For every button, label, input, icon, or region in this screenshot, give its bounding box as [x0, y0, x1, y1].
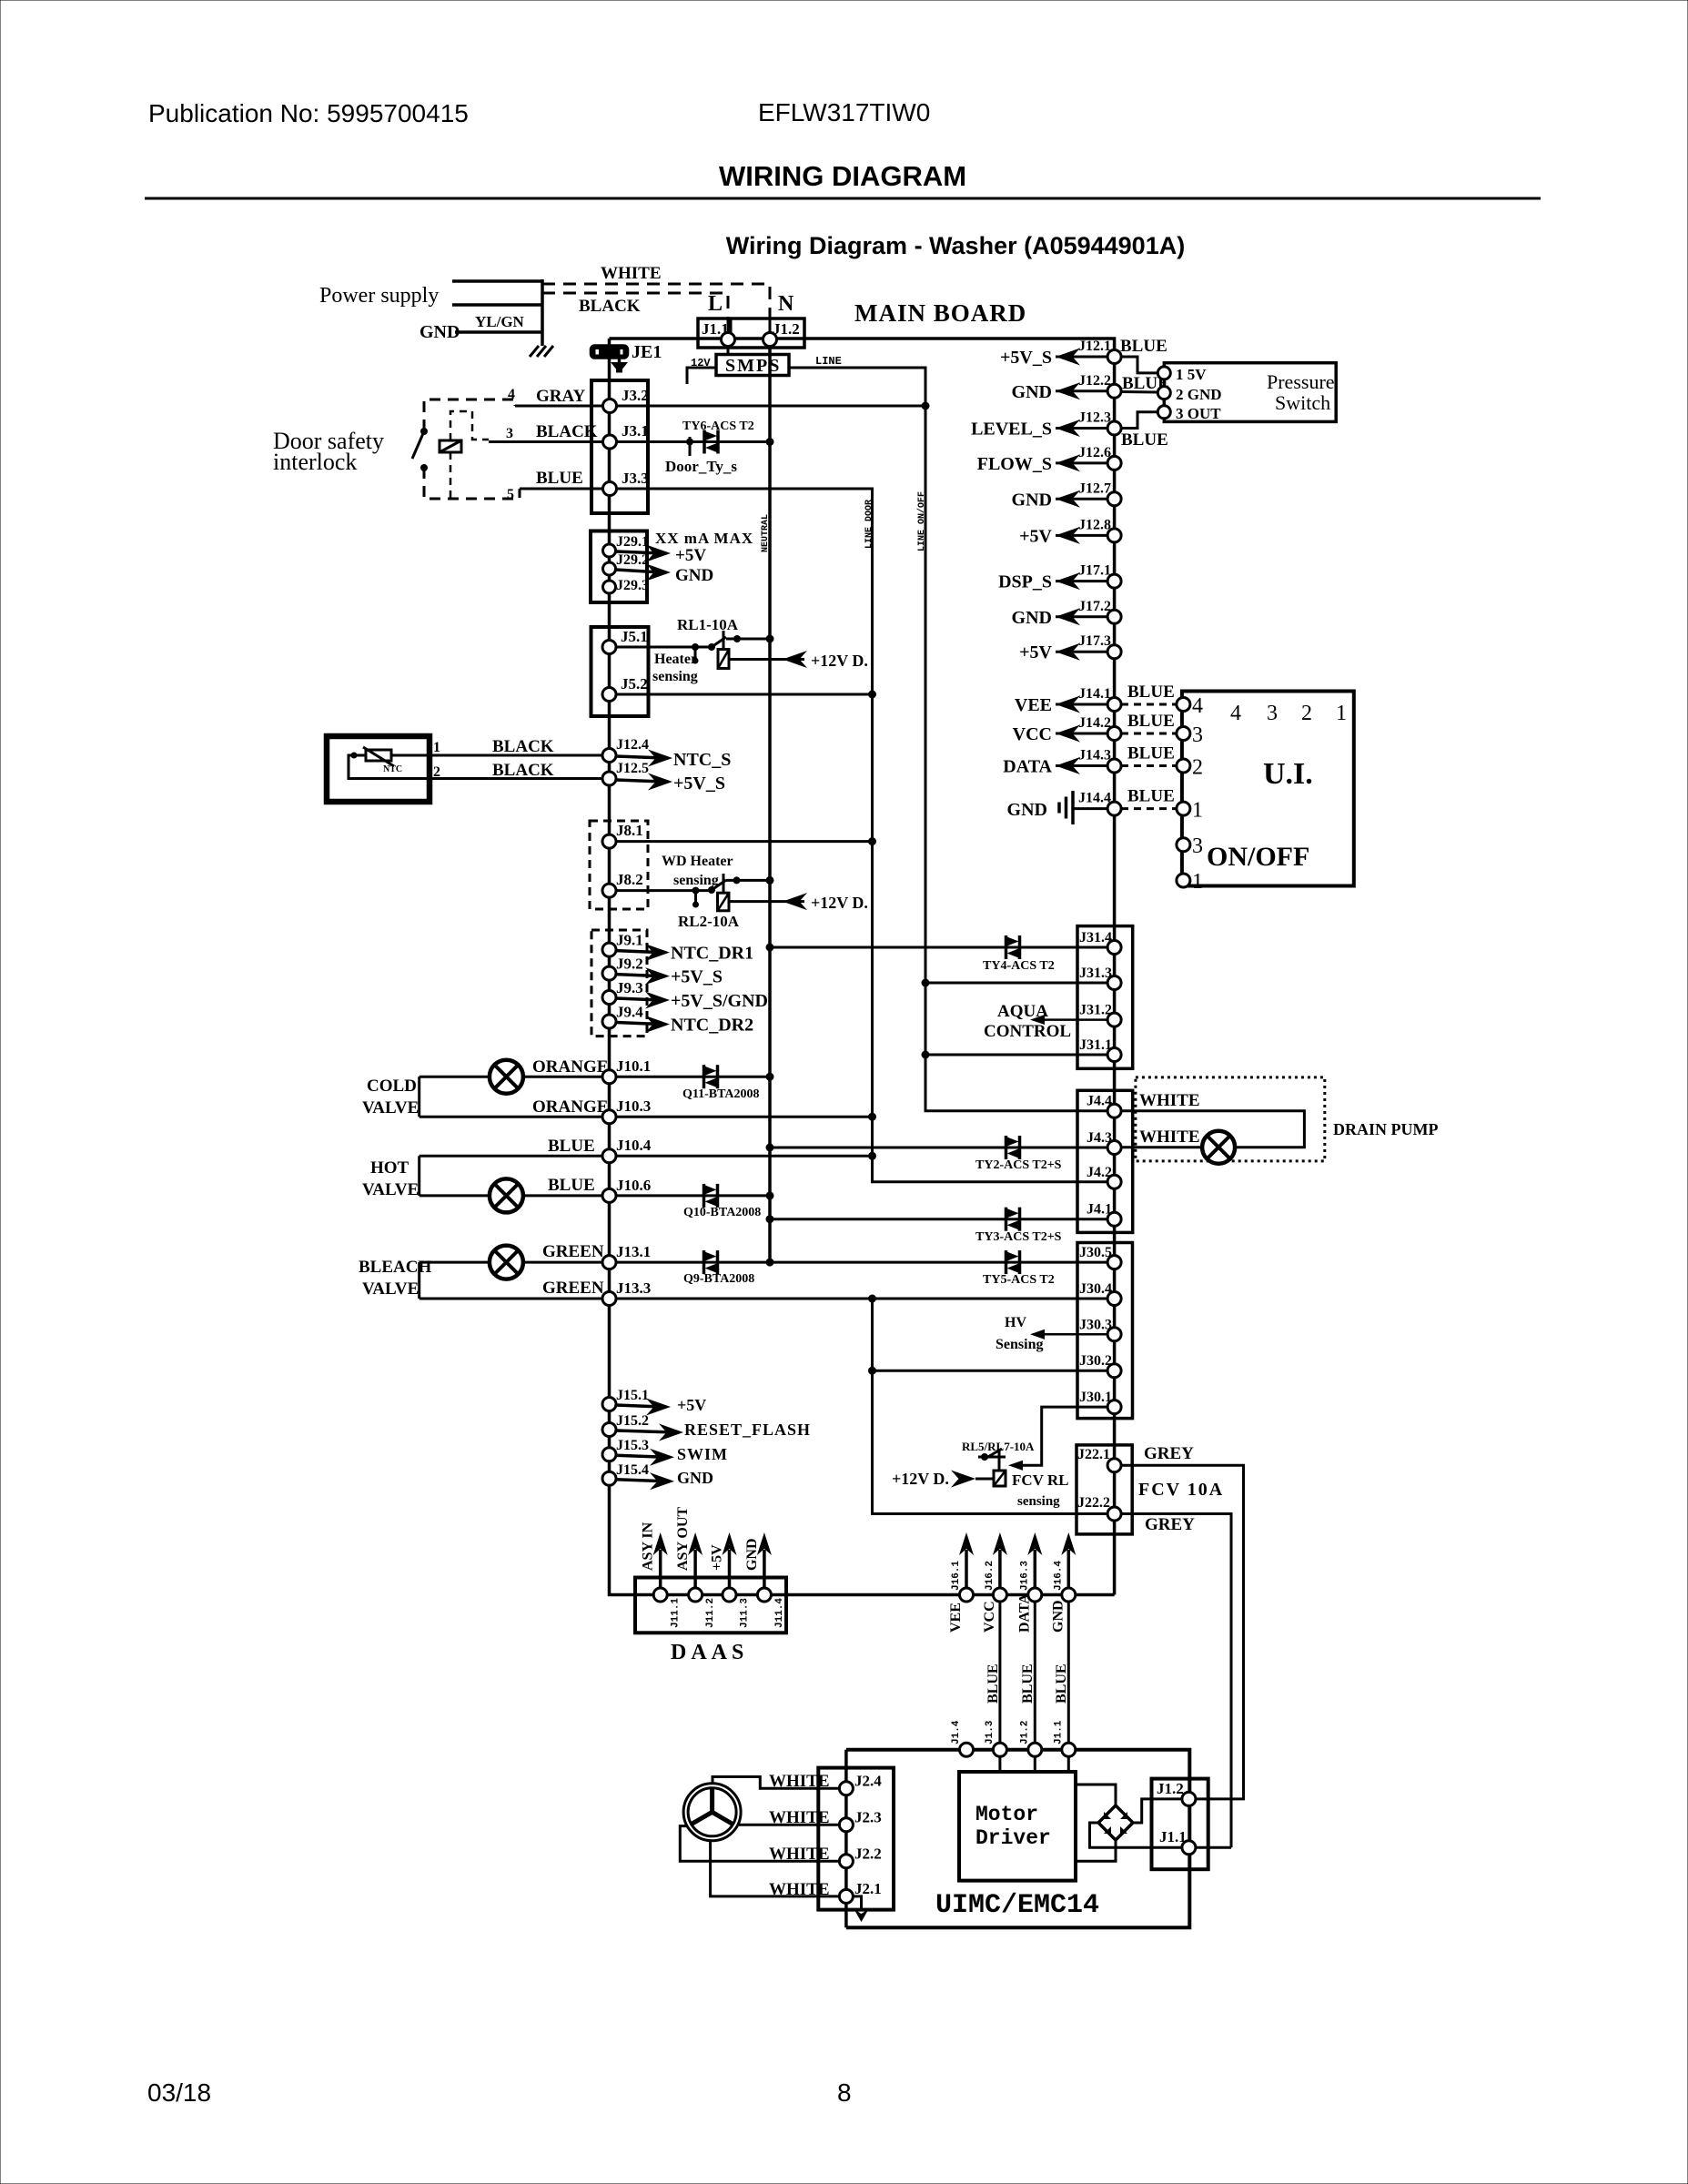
pin J14.1 [1107, 698, 1121, 712]
svg-text:sensing: sensing [1017, 1494, 1060, 1509]
wire L into J1.1 [727, 318, 730, 333]
wire J12.3 to PS3 [1121, 412, 1157, 429]
svg-text:J15.3: J15.3 [616, 1438, 649, 1453]
bridge rectifier [1098, 1805, 1133, 1840]
pin PS2 [1157, 387, 1170, 399]
svg-text:J17.3: J17.3 [1078, 633, 1111, 649]
pin J4.1 [1107, 1212, 1121, 1226]
NTC sensor box [327, 736, 430, 802]
pin J17.2 [1107, 610, 1121, 623]
pin UI 1 [1177, 802, 1190, 815]
svg-text:DSP_S: DSP_S [998, 572, 1052, 592]
wire power drop [541, 279, 544, 346]
svg-text:J22.1: J22.1 [1077, 1447, 1110, 1462]
wire J2.3 motor right [738, 1824, 839, 1826]
triac Q9 [704, 1250, 718, 1274]
wire J4.1/TY3 [770, 1218, 1107, 1220]
svg-text:J14.4: J14.4 [1078, 791, 1111, 806]
svg-text:XX mA MAX: XX mA MAX [655, 530, 753, 547]
pin J8.1 [602, 834, 616, 848]
wire J1.1 stub [1067, 1756, 1070, 1772]
wire BLUE J16.3-J1.2 [1034, 1602, 1036, 1750]
connector J2 box [818, 1768, 894, 1910]
svg-text:J30.2: J30.2 [1079, 1353, 1112, 1369]
junction J30.2 tap [868, 1367, 876, 1375]
svg-text:LINE DOOR: LINE DOOR [864, 500, 874, 549]
svg-text:MAIN BOARD: MAIN BOARD [854, 299, 1026, 327]
svg-text:ORANGE: ORANGE [532, 1057, 608, 1077]
bleach valve left leg [418, 1262, 420, 1299]
svg-text:J12.2: J12.2 [1078, 373, 1111, 389]
NTC lead loop [349, 753, 430, 779]
pin J1.4 [960, 1743, 974, 1756]
arrow +5V_S [1056, 349, 1080, 366]
TY6 gate stub [686, 437, 693, 456]
svg-text:J12.8: J12.8 [1078, 517, 1111, 532]
pin PS3 [1157, 406, 1170, 419]
svg-text:GND: GND [1012, 608, 1052, 628]
svg-text:BLUE: BLUE [1127, 682, 1175, 702]
svg-text:BLUE: BLUE [1127, 712, 1175, 731]
pin J11.4 [757, 1588, 771, 1602]
pin J9.2 [602, 966, 616, 980]
svg-text:NTC_DR1: NTC_DR1 [671, 944, 753, 964]
svg-text:J31.2: J31.2 [1079, 1003, 1112, 1018]
wire J8.1 [616, 840, 873, 843]
arrow +12V RL1 [783, 651, 807, 668]
svg-text:Wiring Diagram - Washer (A0594: Wiring Diagram - Washer (A05944901A) [726, 232, 1185, 259]
svg-text:J15.4: J15.4 [616, 1462, 649, 1478]
svg-text:ASY IN: ASY IN [641, 1522, 656, 1571]
junction J8.1/LINEDOOR [868, 837, 876, 845]
interlock switch contact top [420, 428, 428, 435]
wire BLUE dashed J14-UI 2 [1121, 764, 1177, 767]
wire BLUE J16.4-J1.1 [1067, 1602, 1070, 1750]
svg-text:+5V: +5V [1019, 526, 1052, 546]
svg-text:YL/GN: YL/GN [475, 313, 525, 330]
svg-text:J16.3: J16.3 [1019, 1561, 1030, 1591]
svg-text:J16.4: J16.4 [1053, 1561, 1064, 1591]
svg-text:Power supply: Power supply [319, 284, 439, 308]
wire BLUE dashed J14-UI 1 [1121, 807, 1177, 810]
wire J31.1 [925, 1054, 1107, 1057]
svg-text:J11.4: J11.4 [774, 1598, 785, 1628]
pin J10.6 [602, 1188, 616, 1202]
pin J12.5 [602, 772, 616, 785]
junction TY3/NEUTRAL [766, 1215, 774, 1223]
svg-text:J12.3: J12.3 [1078, 410, 1111, 426]
pin J30.1 [1107, 1400, 1121, 1414]
junction J13.1/NEUTRAL [766, 1259, 774, 1267]
pin J16.3 [1028, 1588, 1042, 1602]
wire RL2 +12V [729, 900, 804, 903]
pin J22.1 [1107, 1459, 1121, 1472]
svg-text:J13.3: J13.3 [616, 1279, 651, 1297]
svg-text:BLACK: BLACK [579, 297, 641, 316]
wire J13.3 drop to J22.2 [873, 1299, 1108, 1514]
svg-text:CONTROL: CONTROL [984, 1022, 1071, 1041]
junction J5.2/LINEDOOR [868, 691, 876, 699]
svg-text:J1.4: J1.4 [951, 1720, 962, 1744]
pin J11.2 [689, 1588, 702, 1602]
Motor Driver box [959, 1772, 1076, 1881]
pin J4.2 [1107, 1175, 1121, 1188]
triac TY5 [1006, 1250, 1020, 1274]
connector J31 box [1077, 926, 1133, 1069]
svg-text:Driver: Driver [975, 1826, 1051, 1850]
wire bridge left / J1.1 line [1090, 1823, 1232, 1847]
wire J5.1 to RL1 [616, 646, 712, 649]
svg-text:GND: GND [419, 322, 460, 342]
interlock switch contact bottom [420, 464, 428, 471]
svg-text:Switch: Switch [1275, 391, 1330, 414]
wire J10.4 [419, 1155, 873, 1158]
NTC lead 1 [391, 754, 430, 757]
pin J14.2 [1107, 727, 1121, 741]
svg-text:J1.2: J1.2 [1157, 1780, 1184, 1797]
pin J13.3 [602, 1292, 616, 1306]
svg-text:J12.7: J12.7 [1078, 480, 1111, 496]
pin J8.2 [602, 884, 616, 897]
svg-text:J12.1: J12.1 [1078, 339, 1111, 354]
wire N into J1.2 [769, 318, 772, 333]
svg-text:SMPS: SMPS [725, 356, 781, 376]
junction J10.3/LINEDOOR [868, 1113, 876, 1121]
wire J10.6 [419, 1194, 770, 1197]
pin J1.3 [993, 1743, 1006, 1756]
svg-text:J14.3: J14.3 [1078, 748, 1111, 763]
wire J12.2 to PS2 [1121, 390, 1157, 394]
svg-text:WHITE: WHITE [1139, 1091, 1200, 1110]
wire +12V to RL5 [975, 1478, 994, 1481]
svg-text:GREEN: GREEN [542, 1242, 604, 1261]
svg-text:LEVEL_S: LEVEL_S [971, 420, 1052, 440]
pump symbol [1202, 1131, 1235, 1164]
svg-text:+5V_S: +5V_S [673, 773, 725, 794]
pin J14.4 [1107, 802, 1121, 815]
svg-text:J17.2: J17.2 [1078, 599, 1111, 614]
svg-text:J13.1: J13.1 [616, 1243, 651, 1260]
arrow GND [1056, 608, 1080, 625]
svg-text:U.I.: U.I. [1263, 757, 1313, 791]
wire J13.1/J30.5 [419, 1261, 1107, 1264]
arrow NTC_S [616, 750, 672, 767]
J16.1 arrow up [959, 1532, 974, 1588]
svg-text:+5V: +5V [1019, 642, 1052, 662]
svg-text:GND: GND [1012, 382, 1052, 402]
svg-text:BLUE: BLUE [536, 469, 583, 488]
svg-text:J8.2: J8.2 [616, 871, 643, 888]
wire main board top [610, 339, 1115, 357]
arrow GND [1056, 382, 1080, 399]
svg-text:J3.2: J3.2 [622, 387, 649, 404]
wire GND yl/gn [455, 330, 542, 334]
arrow RESET_FLASH [616, 1424, 683, 1441]
arrow GND [1056, 490, 1080, 508]
RL2 sense tap [692, 887, 700, 908]
pin J12.6 [1107, 456, 1121, 470]
svg-text:Pressure: Pressure [1267, 370, 1335, 393]
pin J30.4 [1107, 1292, 1121, 1306]
valve hot [490, 1178, 523, 1212]
svg-text:GRAY: GRAY [536, 387, 585, 406]
svg-text:TY2-ACS T2+S: TY2-ACS T2+S [975, 1158, 1062, 1172]
main board right rail [1113, 357, 1117, 1595]
pin J15.3 [602, 1448, 616, 1461]
svg-text:FLOW_S: FLOW_S [977, 454, 1052, 474]
svg-text:+5V: +5V [677, 1396, 706, 1414]
connector J5 box [591, 627, 649, 716]
pin J12.1 [1107, 350, 1121, 364]
connector J22 box [1076, 1445, 1132, 1534]
svg-text:WIRING DIAGRAM: WIRING DIAGRAM [719, 160, 966, 192]
NTC thermistor [363, 747, 394, 766]
pin J15.1 [602, 1398, 616, 1411]
svg-text:J16.2: J16.2 [985, 1561, 996, 1591]
wire BLACK ntc2 [430, 777, 610, 780]
JE1 arrow [611, 357, 628, 373]
svg-text:BLUE: BLUE [1127, 787, 1175, 806]
wire GRAY J3.2 [515, 405, 925, 408]
pin J10.3 [602, 1110, 616, 1124]
pin J5.1 [602, 641, 616, 654]
arrow AQUA CONTROL [1030, 1015, 1107, 1025]
arrow FCV RL sense [1008, 1461, 1023, 1471]
RL1 sense tap [692, 643, 699, 664]
svg-text:DATA: DATA [1016, 1593, 1032, 1633]
svg-text:GND: GND [1007, 800, 1047, 820]
svg-text:BLUE: BLUE [548, 1176, 595, 1195]
wire J30.2 [873, 1370, 1108, 1372]
interlock coil dashed lower [450, 452, 452, 499]
svg-text:3: 3 [1267, 702, 1278, 725]
J2.1 stub arrow [854, 1909, 869, 1922]
pin J29.3 [603, 581, 616, 593]
svg-text:GND: GND [744, 1538, 760, 1571]
junction J3.1/NEUTRAL [766, 438, 774, 446]
svg-text:3: 3 [1192, 834, 1203, 858]
wire J14.4 gnd [1073, 807, 1107, 810]
svg-text:N: N [778, 292, 794, 316]
wire J17.2 arrow tail [1056, 615, 1107, 618]
junction LINE/J31.3 [922, 979, 930, 987]
svg-text:BLACK: BLACK [492, 737, 554, 756]
pin J31.3 [1107, 976, 1121, 990]
wire J31.4/TY4 [770, 946, 1107, 949]
connector J29 box [591, 531, 647, 603]
arrow +5V_S/GND [616, 992, 670, 1009]
wire J2.2 motor left [680, 1826, 839, 1862]
pin J1.2 (motor) [1182, 1792, 1196, 1805]
svg-text:1: 1 [1192, 799, 1203, 823]
pin J12.3 [1107, 421, 1121, 435]
svg-text:3 OUT: 3 OUT [1176, 405, 1221, 422]
svg-text:WD Heater: WD Heater [662, 854, 733, 869]
svg-text:J31.3: J31.3 [1079, 966, 1112, 981]
wire motor row [846, 1750, 1189, 1927]
motor (3-phase) [683, 1784, 741, 1841]
svg-text:BLACK: BLACK [492, 761, 554, 780]
pin J1.1 [1062, 1743, 1076, 1756]
svg-text:HV: HV [1005, 1315, 1026, 1330]
pin J2.3 [839, 1818, 853, 1832]
svg-text:GREY: GREY [1144, 1444, 1194, 1463]
J2.1 drain stub [853, 1896, 862, 1909]
svg-text:Motor: Motor [975, 1803, 1038, 1826]
wire BLUE J3.3 [520, 489, 1107, 1182]
arrow +12V RL2 [783, 893, 807, 910]
svg-text:2: 2 [1301, 702, 1312, 725]
svg-text:J12.5: J12.5 [616, 761, 649, 776]
svg-text:ON/OFF: ON/OFF [1207, 842, 1309, 872]
svg-text:VCC: VCC [1013, 724, 1052, 744]
svg-text:Publication No: 5995700415: Publication No: 5995700415 [148, 99, 469, 127]
relay coil RL2 [718, 893, 730, 911]
wire J14.2 arrow tail [1056, 733, 1107, 735]
wire bridge right to J1.2 [1133, 1799, 1182, 1823]
svg-text:J15.1: J15.1 [616, 1388, 649, 1403]
svg-text:+12V D.: +12V D. [811, 894, 868, 912]
svg-text:FCV RL: FCV RL [1012, 1471, 1069, 1489]
pin J16.2 [993, 1588, 1006, 1602]
pin J9.3 [602, 991, 616, 1005]
svg-text:BLUE: BLUE [1121, 430, 1168, 450]
svg-text:BLEACH: BLEACH [359, 1258, 431, 1277]
arrow +5V [616, 1399, 671, 1416]
wire J1.1 to SMPS [727, 339, 730, 355]
pin J30.3 [1107, 1328, 1121, 1341]
pin UI 4 [1177, 698, 1190, 712]
RL2 fixed lead [726, 876, 774, 885]
svg-text:J30.1: J30.1 [1079, 1390, 1112, 1405]
svg-text:J30.5: J30.5 [1079, 1245, 1112, 1260]
relay coil (door) [440, 440, 461, 452]
arrow DSP_S [1056, 572, 1080, 590]
svg-text:interlock: interlock [273, 449, 357, 475]
pin J17.3 [1107, 645, 1121, 659]
svg-text:GND: GND [675, 566, 713, 585]
wire J14.1 arrow tail [1056, 703, 1107, 706]
svg-text:Heater: Heater [654, 652, 697, 667]
pin J3.3 [603, 482, 617, 496]
pin J15.2 [602, 1423, 616, 1437]
wire bridge top [1076, 1785, 1116, 1805]
triac TY6 [704, 430, 718, 454]
pin J9.1 [602, 943, 616, 956]
triac TY2 [1006, 1136, 1020, 1159]
wire BLACK dashed [542, 293, 728, 318]
wire BLUE dashed J14-UI 4 [1121, 703, 1177, 706]
svg-text:J1.1: J1.1 [1159, 1828, 1187, 1845]
arrow +5V_S [616, 967, 670, 985]
svg-text:1: 1 [1336, 702, 1347, 725]
svg-text:VCC: VCC [982, 1601, 997, 1633]
relay coil RL5/RL7 [994, 1471, 1006, 1486]
pin UI onoff 1 [1177, 874, 1190, 887]
svg-text:JE1: JE1 [632, 342, 662, 362]
svg-text:J10.6: J10.6 [616, 1177, 651, 1194]
relay coil RL1 [718, 650, 729, 669]
svg-text:TY5-ACS T2: TY5-ACS T2 [983, 1273, 1055, 1287]
arrow +5V [1056, 527, 1080, 544]
pin J1.1 [722, 333, 735, 347]
svg-text:GND: GND [1012, 490, 1052, 510]
junction TY2/NEUTRAL [766, 1144, 774, 1152]
J16.3 arrow up [1027, 1532, 1042, 1588]
wire J17.3 arrow tail [1056, 651, 1107, 653]
arrow SWIM [616, 1449, 674, 1466]
svg-text:J11.1: J11.1 [671, 1598, 682, 1628]
wire J8.2 to RL2 [616, 889, 712, 892]
arrow HV sensing [1030, 1330, 1107, 1340]
pin J31.2 [1107, 1013, 1121, 1026]
ground (chassis) [530, 346, 553, 357]
triac TY3 [1006, 1208, 1020, 1231]
svg-text:+5V: +5V [675, 546, 706, 565]
pin J1.2 [763, 333, 777, 347]
wire J10.1 [419, 1076, 770, 1078]
svg-text:WHITE: WHITE [1139, 1127, 1200, 1147]
connector J4 box [1077, 1090, 1133, 1232]
svg-text:4: 4 [1230, 702, 1241, 725]
connector J3 box [591, 380, 648, 513]
pin J2.2 [839, 1855, 853, 1868]
svg-text:DRAIN PUMP: DRAIN PUMP [1333, 1120, 1438, 1138]
pin UI 3 [1177, 727, 1190, 741]
wire JE1 drop [608, 339, 612, 380]
svg-text:J30.3: J30.3 [1079, 1317, 1112, 1332]
svg-text:+5V_S: +5V_S [671, 967, 723, 987]
interlock switch blade [412, 431, 424, 459]
svg-text:4: 4 [508, 387, 515, 402]
wire J4.4 pump [1121, 1111, 1304, 1148]
svg-text:FCV 10A: FCV 10A [1138, 1480, 1224, 1500]
wire J5.2 [616, 693, 873, 696]
svg-text:J12.4: J12.4 [616, 737, 649, 753]
wire BLUE J16.2-J1.3 [998, 1602, 1001, 1750]
svg-text:TY3-ACS T2+S: TY3-ACS T2+S [975, 1230, 1062, 1244]
svg-text:LINE ON/OFF: LINE ON/OFF [916, 491, 927, 551]
svg-text:3: 3 [506, 426, 513, 441]
svg-text:GREEN: GREEN [542, 1279, 604, 1298]
header rule [145, 197, 1541, 200]
svg-text:BLUE: BLUE [986, 1663, 1001, 1704]
wire J12.8 arrow tail [1056, 534, 1107, 537]
valve cold [490, 1060, 523, 1094]
pin UI 2 [1177, 759, 1190, 773]
pin J2.1 [839, 1889, 853, 1903]
pin J15.4 [602, 1471, 616, 1485]
wire J2.4 motor top [713, 1777, 839, 1789]
svg-text:BLUE: BLUE [1054, 1663, 1069, 1704]
svg-text:+5V_S: +5V_S [1000, 348, 1052, 368]
svg-text:Q10-BTA2008: Q10-BTA2008 [683, 1206, 761, 1219]
arrow J29.1 +5V [616, 545, 671, 562]
interlock dashed bottom [424, 468, 520, 499]
pin J3.2 [603, 399, 617, 413]
wire J1.3 stub [998, 1756, 1001, 1772]
svg-text:J14.1: J14.1 [1078, 686, 1111, 702]
svg-text:J31.4: J31.4 [1079, 930, 1112, 945]
wire J31.3 [925, 982, 1107, 985]
J11.1 arrow up [653, 1532, 668, 1588]
svg-text:J9.1: J9.1 [616, 932, 643, 949]
svg-text:Door_Ty_s: Door_Ty_s [665, 458, 737, 475]
NEUTRAL rail [768, 346, 772, 1262]
svg-text:+12V D.: +12V D. [892, 1470, 949, 1488]
svg-text:WHITE: WHITE [601, 264, 662, 283]
svg-text:DAAS: DAAS [671, 1641, 748, 1664]
